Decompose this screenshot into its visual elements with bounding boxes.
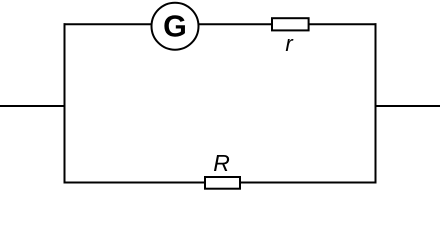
wire top branch: [64, 23, 377, 25]
svg-text:r: r: [285, 31, 294, 56]
wire bottom branch: [64, 182, 377, 184]
wire right lead (external terminal): [376, 105, 440, 107]
svg-text:R: R: [213, 150, 230, 176]
galvanometer G: [152, 3, 199, 50]
svg-text:G: G: [163, 10, 187, 44]
resistor R: [205, 150, 240, 189]
wire left lead (external terminal): [0, 105, 65, 107]
wire right vertical branch: [375, 23, 377, 183]
wire left vertical branch: [64, 23, 66, 183]
resistor r: [272, 18, 309, 56]
